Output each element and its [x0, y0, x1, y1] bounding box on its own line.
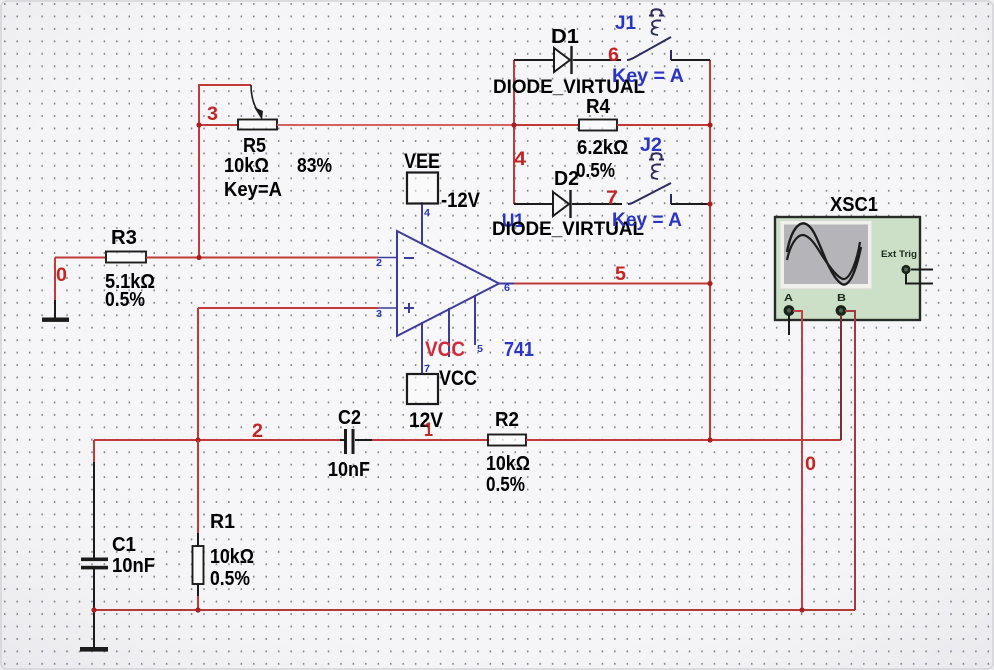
svg-text:6.2kΩ: 6.2kΩ — [577, 137, 628, 159]
svg-text:D2: D2 — [554, 168, 579, 190]
op-amp U1 741 — [378, 202, 514, 374]
oscilloscope XSC1 — [775, 217, 933, 320]
wire: R4 branch right — [617, 124, 710, 126]
svg-text:Ext Trig: Ext Trig — [881, 249, 917, 260]
svg-text:Key = A: Key = A — [612, 66, 684, 87]
capacitor C1 — [81, 558, 108, 570]
wire: J2 to right vertical — [671, 203, 710, 205]
svg-text:R2: R2 — [495, 409, 519, 431]
op-amp value labels — [425, 338, 534, 361]
svg-text:10nF: 10nF — [112, 555, 155, 577]
wire: R1 top stub — [197, 440, 199, 546]
wire: R1 bottom stub — [197, 584, 199, 610]
ground (left input) — [42, 318, 69, 322]
svg-text:B: B — [837, 293, 846, 304]
svg-text:0.5%: 0.5% — [105, 289, 145, 311]
ground (bottom left) — [80, 647, 108, 652]
junction R1/ground rail — [195, 607, 200, 612]
junction bottom branch right — [707, 201, 712, 206]
R3 labels — [105, 227, 155, 311]
junction R4 left — [511, 122, 516, 127]
C1 labels — [112, 534, 155, 577]
svg-text:6: 6 — [504, 283, 510, 294]
junction node 3 / R5 left — [196, 122, 201, 127]
svg-text:C2: C2 — [338, 407, 361, 429]
wire: scope B down to R2 line — [840, 315, 842, 440]
wire: scope B right stub to ground rail — [845, 311, 855, 610]
wire: J1 to right vertical — [671, 59, 710, 61]
svg-text:0: 0 — [805, 454, 816, 475]
switch J2 — [628, 153, 671, 204]
junction right vertical / R2 line — [707, 437, 712, 442]
wire: R3 to op-amp inverting input — [146, 257, 378, 259]
diode D1 — [554, 46, 572, 74]
wire: R5 wiper loop horizontal — [198, 84, 251, 86]
VCC supply box — [407, 367, 477, 432]
wire: diode network left vertical (node 4) — [513, 60, 515, 204]
svg-text:XSC1: XSC1 — [830, 194, 878, 216]
junction output/right vertical — [707, 281, 712, 286]
svg-text:D1: D1 — [551, 26, 579, 48]
R1 labels — [210, 511, 254, 590]
resistor R2 — [488, 435, 526, 446]
R2 labels — [486, 409, 530, 496]
svg-text:4: 4 — [424, 208, 430, 219]
wire: diode network right vertical — [709, 60, 711, 440]
wire: R5 wiper loop vertical (node 3) — [198, 85, 200, 258]
svg-text:1: 1 — [424, 420, 433, 441]
svg-text:0.5%: 0.5% — [210, 568, 250, 590]
svg-text:2: 2 — [252, 421, 263, 442]
wire: D2 to J2 — [572, 203, 622, 205]
R5 wiper arrow — [251, 85, 263, 120]
resistor R3 — [106, 252, 146, 263]
svg-text:A: A — [784, 293, 793, 304]
wire: node 0 ground drop — [54, 258, 56, 319]
svg-text:10kΩ: 10kΩ — [486, 453, 530, 475]
svg-text:C1: C1 — [112, 534, 136, 556]
wire: bottom ground rail — [94, 609, 855, 611]
wire: top branch left (to D1) — [514, 59, 554, 61]
wire: op-amp non-inverting input line — [198, 308, 378, 440]
svg-text:5: 5 — [615, 264, 626, 285]
svg-text:7: 7 — [606, 188, 618, 209]
svg-text:10nF: 10nF — [328, 459, 370, 481]
wire: op-amp output (node 5) — [514, 283, 710, 285]
svg-text:6: 6 — [608, 45, 619, 66]
wire: scope A to ground rail — [793, 311, 802, 610]
svg-text:5: 5 — [477, 344, 483, 355]
wire: scope A stub down — [788, 315, 790, 335]
resistor R4 — [579, 120, 617, 131]
VEE supply box — [404, 150, 480, 212]
svg-text:3: 3 — [207, 104, 218, 125]
wire: left input to R3 — [55, 257, 106, 259]
wire: R5 right to diode network (node 3) — [277, 124, 514, 126]
svg-text:10kΩ: 10kΩ — [224, 155, 269, 177]
junction node 3 / inverting line — [196, 255, 201, 260]
wire: C1 bottom to ground line — [93, 569, 95, 647]
svg-text:J1: J1 — [615, 13, 636, 34]
svg-text:R3: R3 — [111, 227, 137, 249]
junction R4 right — [707, 122, 712, 127]
svg-text:VCC: VCC — [425, 338, 465, 361]
svg-text:VCC: VCC — [439, 367, 477, 390]
svg-text:10kΩ: 10kΩ — [210, 546, 254, 568]
svg-text:741: 741 — [504, 339, 534, 361]
svg-text:2: 2 — [376, 258, 382, 269]
wire: R4 branch left — [514, 124, 579, 126]
capacitor C2 — [340, 429, 372, 454]
diode D2 — [553, 190, 571, 218]
wire: feedback line node 2 (C2 row, left part) — [94, 439, 340, 441]
potentiometer R5 body — [238, 120, 277, 130]
svg-text:0.5%: 0.5% — [576, 160, 615, 182]
C2 labels — [328, 407, 370, 481]
wire: bottom branch left (to D2) — [514, 203, 553, 205]
wire: node 3 to R5 left terminal — [199, 124, 238, 126]
svg-text:0.5%: 0.5% — [486, 474, 525, 496]
svg-text:VEE: VEE — [404, 150, 440, 173]
switch J1 — [627, 9, 671, 60]
wire: C1 top vertical — [93, 440, 95, 558]
wire: C2 to R2 (node 1) — [372, 439, 488, 441]
svg-text:Key = A: Key = A — [612, 210, 682, 231]
wire: R2 to scope B line — [526, 439, 841, 441]
svg-text:R1: R1 — [210, 511, 235, 533]
R5 labels — [224, 135, 332, 201]
svg-text:R5: R5 — [243, 135, 266, 157]
op-amp pin numbers — [376, 208, 510, 375]
svg-text:83%: 83% — [297, 155, 332, 177]
svg-text:3: 3 — [376, 309, 382, 320]
svg-text:0: 0 — [56, 265, 67, 286]
svg-text:4: 4 — [514, 149, 526, 170]
svg-text:R4: R4 — [586, 96, 611, 118]
svg-text:J2: J2 — [640, 135, 662, 156]
svg-text:Key=A: Key=A — [224, 179, 282, 201]
resistor R1 — [193, 546, 204, 584]
R4 labels — [576, 96, 628, 182]
junction A wire/ground rail — [799, 607, 804, 612]
wire: D1 to J1 — [573, 59, 621, 61]
junction C1/ground rail — [91, 607, 96, 612]
junction node2/R1 — [195, 437, 200, 442]
svg-text:-12V: -12V — [441, 189, 480, 212]
